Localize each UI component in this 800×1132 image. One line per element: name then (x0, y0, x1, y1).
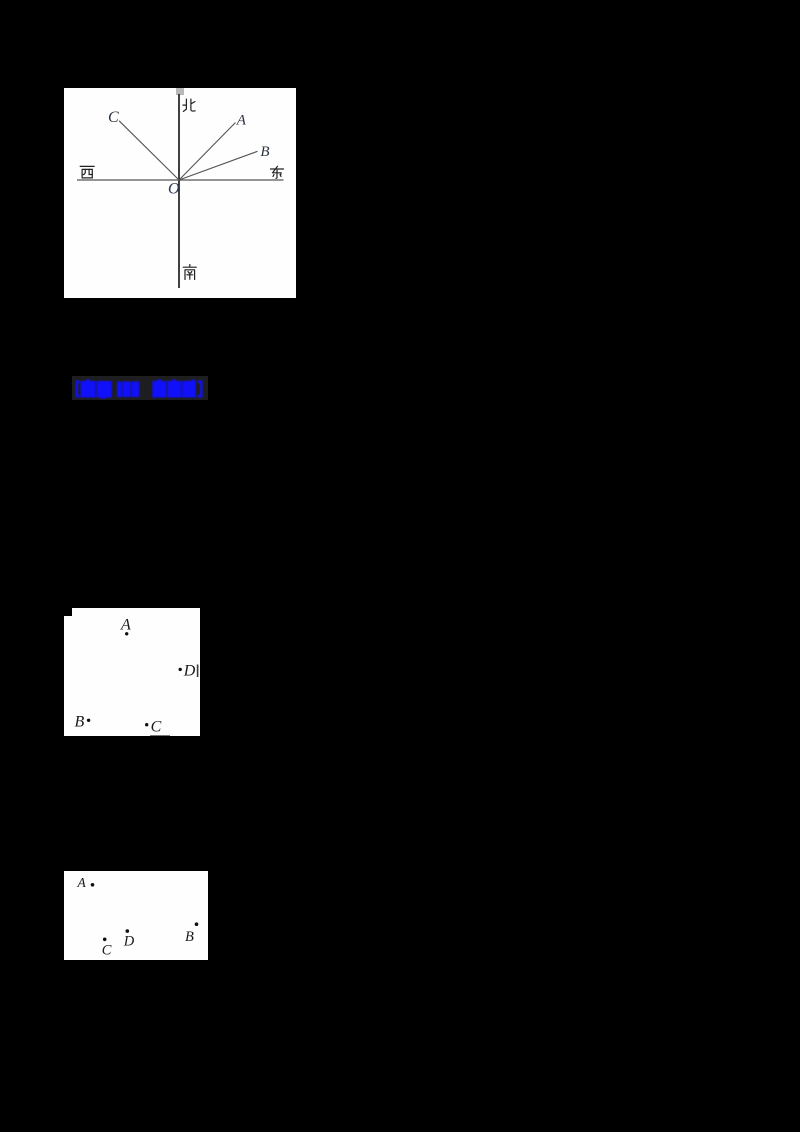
label nan (south) (183, 265, 196, 280)
svg-text:A: A (77, 875, 87, 890)
label dong (east) (271, 166, 284, 178)
point C dot (145, 723, 148, 726)
point B dot (87, 718, 90, 721)
heading char 5 ascender (191, 380, 195, 382)
four points figure panel (square) (64, 608, 200, 736)
svg-text:A: A (120, 616, 131, 633)
ray OB (179, 151, 258, 180)
ray OA (179, 123, 236, 181)
label xi (west) (80, 166, 94, 178)
svg-text:C: C (108, 109, 119, 126)
ray OC (119, 121, 179, 180)
heading open bracket (76, 381, 80, 398)
heading char 5 (182, 381, 196, 398)
heading char 4 ascender (172, 380, 176, 382)
point B dot (195, 922, 199, 926)
compass figure panel (64, 88, 296, 298)
resize handle (176, 88, 184, 95)
heading char 3 (152, 381, 166, 398)
label bei (north) (183, 99, 195, 111)
svg-text:A: A (236, 112, 247, 128)
four points figure panel (wide) (64, 871, 208, 960)
point A dot (91, 883, 95, 887)
heading char 4 (167, 381, 181, 398)
svg-text:O: O (168, 181, 180, 198)
heading close bracket (198, 381, 203, 398)
wire north-south axis (178, 94, 180, 288)
bottom smudge (150, 735, 170, 736)
point A dot (125, 632, 128, 635)
svg-text:D: D (123, 934, 135, 950)
svg-text:D: D (183, 662, 196, 679)
heading digits (117, 382, 122, 398)
heading char 1 (81, 381, 96, 398)
point C dot (103, 938, 107, 942)
svg-text:C: C (151, 718, 162, 735)
point D dot (179, 667, 182, 670)
cursor bar (197, 664, 199, 677)
blue section heading (72, 376, 208, 400)
svg-text:B: B (260, 144, 269, 160)
point D dot (126, 929, 130, 933)
heading char 2 (96, 381, 112, 398)
wire west-east axis (77, 179, 284, 181)
svg-text:C: C (102, 943, 112, 959)
svg-text:B: B (75, 713, 85, 730)
svg-text:B: B (185, 929, 194, 945)
corner notch (64, 608, 72, 616)
heading char 1 ascender (86, 380, 90, 382)
heading char 3 ascender (157, 380, 162, 382)
heading char 2 descender (100, 397, 106, 399)
